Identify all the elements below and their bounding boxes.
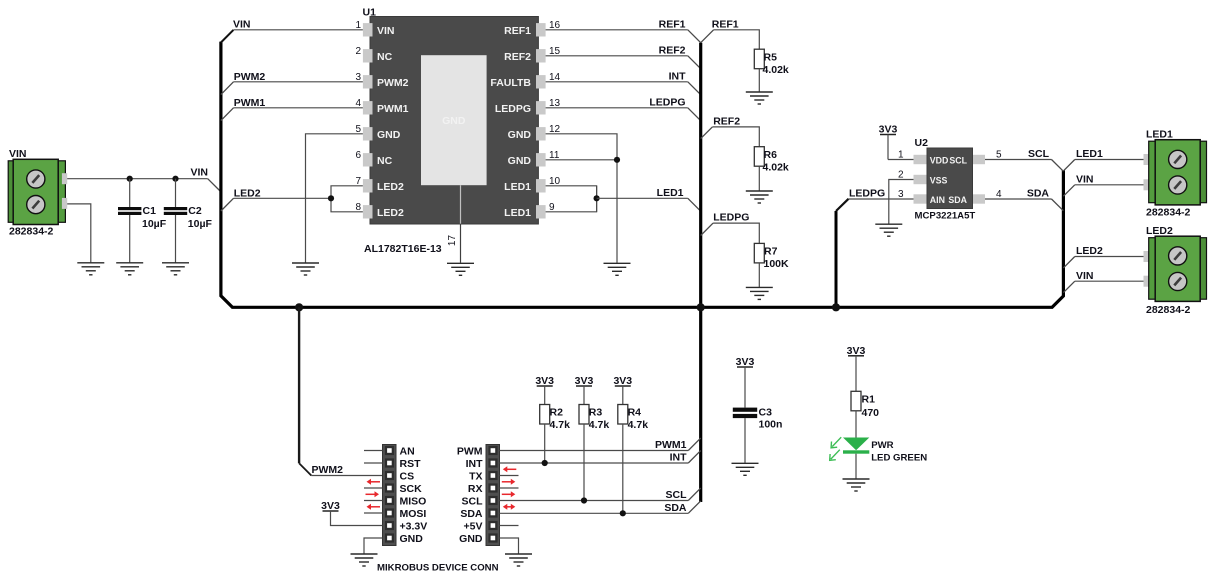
wire R2 down	[544, 424, 546, 463]
stub SCK	[364, 487, 383, 489]
svg-text:R7: R7	[764, 246, 778, 258]
svg-text:PWM2: PWM2	[312, 464, 344, 476]
node R4 junction	[620, 510, 626, 516]
svg-text:LED1: LED1	[657, 187, 684, 199]
svg-text:REF2: REF2	[713, 115, 740, 127]
svg-text:1: 1	[898, 150, 904, 161]
node LED2 bracket junction	[328, 195, 334, 201]
svg-text:REF2: REF2	[659, 44, 686, 56]
power 3V3 for R1	[847, 345, 866, 392]
wire LEDPG to U2 pin3 AIN	[849, 198, 914, 200]
wire U1 pin11 GND	[546, 159, 617, 161]
svg-text:FAULTB: FAULTB	[490, 77, 531, 89]
stub MOSI	[364, 512, 383, 514]
svg-text:LED2: LED2	[234, 187, 261, 199]
svg-text:4.7k: 4.7k	[589, 419, 610, 431]
stub RX	[500, 487, 519, 489]
svg-text:4.02k: 4.02k	[763, 162, 789, 174]
wire PWM2 drop from bus	[298, 307, 300, 463]
wire LED2 from bus to LED2 terminal	[1063, 257, 1074, 268]
svg-text:AN: AN	[400, 446, 415, 458]
svg-text:10µF: 10µF	[188, 218, 213, 230]
resistor R6 4.02k	[754, 147, 789, 174]
svg-text:PWR: PWR	[871, 440, 893, 451]
svg-text:VDD: VDD	[930, 156, 949, 166]
stub MISO	[364, 500, 383, 502]
wire LED1 to right bus	[597, 197, 688, 199]
connector LED1 terminal block 282834-2	[1144, 129, 1207, 219]
svg-text:LED GREEN: LED GREEN	[871, 452, 927, 463]
svg-text:PWM1: PWM1	[377, 103, 409, 115]
LED emission arrows	[830, 437, 842, 460]
arrow SCK-MISO right	[366, 491, 380, 497]
svg-text:10: 10	[549, 176, 561, 187]
wire C3 to ground	[744, 418, 746, 463]
U1 pin stubs right	[536, 23, 546, 218]
svg-text:3V3: 3V3	[613, 375, 632, 387]
svg-text:VSS: VSS	[930, 176, 948, 186]
resistor R4 4.7k	[618, 405, 648, 432]
svg-text:3V3: 3V3	[847, 345, 866, 357]
wire REF1 U1 pin16 to right bus	[546, 29, 688, 31]
node LEDPG bus junction	[832, 303, 840, 311]
ground C2	[162, 263, 189, 275]
svg-text:CS: CS	[400, 471, 415, 483]
svg-text:GND: GND	[442, 115, 466, 127]
ground U2 VSS	[875, 224, 902, 236]
svg-text:INT: INT	[670, 452, 688, 464]
svg-text:R5: R5	[764, 52, 778, 64]
capacitor C1 10uF	[118, 179, 167, 263]
svg-text:INT: INT	[466, 458, 484, 470]
wire R7 to ground	[758, 263, 760, 287]
svg-text:C1: C1	[143, 205, 157, 217]
svg-text:4.7k: 4.7k	[628, 419, 649, 431]
arrow SCL-SDA both	[503, 504, 516, 510]
wire LEDPG from bus to R7	[701, 223, 713, 235]
svg-text:LED1: LED1	[1076, 148, 1103, 160]
resistor R5 4.02k	[754, 49, 789, 76]
wire PWM2 diagonal from bus	[221, 82, 234, 95]
svg-text:SCK: SCK	[400, 483, 423, 495]
svg-text:15: 15	[549, 46, 561, 57]
wire bracket U1 pins 10-9	[546, 186, 597, 212]
svg-text:3: 3	[355, 72, 361, 83]
stub +5V	[500, 525, 519, 527]
svg-text:100n: 100n	[759, 419, 783, 431]
U1 pin numbers	[355, 20, 560, 213]
svg-text:SCL: SCL	[666, 489, 688, 501]
wire SDA mikrobus to bus	[500, 512, 689, 514]
svg-text:MCP3221A5T: MCP3221A5T	[915, 211, 976, 222]
power 3V3 for R2	[535, 375, 554, 405]
svg-text:282834-2: 282834-2	[1146, 206, 1191, 218]
svg-text:17: 17	[447, 235, 458, 247]
U2 pin numbers	[898, 150, 1002, 201]
power 3V3 for C3	[736, 356, 755, 408]
ground C1	[116, 263, 143, 275]
resistor R1 470	[851, 391, 879, 419]
svg-text:VIN: VIN	[1076, 173, 1094, 185]
svg-text:3V3: 3V3	[736, 356, 755, 368]
svg-text:4.02k: 4.02k	[763, 64, 789, 76]
ground mikrobus left	[351, 554, 378, 566]
wire R6 to ground	[758, 166, 760, 190]
arrow TX-RX right	[502, 479, 516, 485]
power 3V3 for R3	[575, 375, 594, 405]
U1 pin labels inside	[377, 25, 531, 219]
svg-text:2: 2	[898, 170, 904, 181]
wire PWM1 to U1 pin4	[234, 107, 363, 109]
wire LEDPG U1 pin13 to right bus	[546, 107, 688, 109]
resistor R2 4.7k	[540, 405, 570, 432]
svg-text:GND: GND	[400, 533, 424, 545]
arrow RX-SCL right	[502, 491, 516, 497]
svg-text:LED1: LED1	[1146, 129, 1173, 141]
ground U1 pin5	[292, 263, 319, 275]
stub RST	[364, 462, 383, 464]
svg-text:U2: U2	[915, 137, 929, 149]
svg-text:GND: GND	[508, 129, 532, 141]
svg-text:MOSI: MOSI	[400, 508, 427, 520]
svg-text:SDA: SDA	[1027, 188, 1050, 200]
wire INT U1 pin14 to right bus	[546, 81, 688, 83]
svg-text:4: 4	[355, 98, 361, 109]
node right bus bottom junction	[697, 303, 705, 311]
wire SCL U2 pin5 to far-right bus	[985, 159, 1052, 161]
svg-text:RX: RX	[468, 483, 483, 495]
wire LED to ground	[855, 454, 857, 479]
svg-text:+5V: +5V	[464, 521, 483, 533]
svg-text:LED2: LED2	[1146, 225, 1173, 237]
arrow CS-SCK left	[367, 479, 381, 485]
svg-text:R2: R2	[550, 407, 564, 419]
svg-text:10µF: 10µF	[142, 218, 167, 230]
svg-text:REF1: REF1	[504, 25, 531, 37]
node PWM2 bus junction	[295, 303, 303, 311]
stub TX	[500, 475, 519, 477]
ground R5	[746, 92, 773, 104]
svg-text:5: 5	[996, 150, 1002, 161]
svg-text:4: 4	[996, 189, 1002, 200]
wire U1 pin12 GND	[546, 134, 617, 263]
wire VIN terminal pin1 to C1/C2/bus	[67, 178, 208, 180]
node R3 junction	[581, 497, 587, 503]
wire LED2 from bus to pins 7/8 bracket	[234, 197, 332, 199]
wire VIN to LED1 terminal	[1063, 185, 1074, 196]
svg-text:TX: TX	[469, 471, 482, 483]
svg-text:9: 9	[549, 202, 555, 213]
svg-text:100K: 100K	[764, 258, 790, 270]
wire SDA U2 pin4 to far-right bus	[985, 198, 1052, 200]
ground U1 pins 11/12	[604, 263, 631, 275]
mikrobus left pin labels	[400, 446, 428, 546]
svg-text:LED2: LED2	[1076, 245, 1103, 257]
svg-text:C2: C2	[188, 205, 202, 217]
wire U1 pin5 GND down to ground	[306, 134, 363, 263]
svg-text:NC: NC	[377, 155, 393, 167]
wire PWM2 to U1 pin3	[234, 81, 363, 83]
svg-text:LEDPG: LEDPG	[849, 188, 885, 200]
svg-text:14: 14	[549, 72, 561, 83]
svg-text:MIKROBUS DEVICE CONN: MIKROBUS DEVICE CONN	[377, 562, 499, 573]
svg-text:16: 16	[549, 20, 561, 31]
stub AN	[364, 450, 383, 452]
bus LEDPG drop from bottom bus	[835, 211, 838, 307]
svg-text:6: 6	[355, 150, 361, 161]
svg-text:REF2: REF2	[504, 51, 531, 63]
power 3V3 for R4	[613, 375, 632, 405]
bus left vertical / bottom horizontal / far-right vertical	[221, 42, 1064, 308]
svg-text:PWM2: PWM2	[234, 71, 266, 83]
node VIN-C2 junction	[172, 176, 178, 182]
op-amp U1 AL1782T16E-13 body	[363, 7, 539, 225]
svg-text:11: 11	[549, 150, 560, 161]
svg-text:282834-2: 282834-2	[9, 226, 54, 238]
svg-text:MISO: MISO	[400, 496, 427, 508]
svg-text:LED1: LED1	[504, 207, 531, 219]
connector mikrobus left header	[383, 445, 397, 546]
U1 pin stubs left	[363, 23, 373, 218]
wire SCL mikrobus to bus	[500, 500, 689, 502]
op-amp U2 MCP3221A5T body	[914, 137, 986, 222]
svg-text:PWM2: PWM2	[377, 77, 409, 89]
wire mikrobus left GND	[364, 538, 383, 554]
wire INT mikrobus to bus	[500, 462, 689, 464]
wire R4 down	[622, 424, 624, 513]
svg-text:282834-2: 282834-2	[1146, 304, 1191, 316]
svg-text:VIN: VIN	[377, 25, 395, 37]
svg-text:AL1782T16E-13: AL1782T16E-13	[364, 243, 442, 255]
svg-text:NC: NC	[377, 51, 393, 63]
svg-text:2: 2	[355, 46, 361, 57]
svg-text:12: 12	[549, 124, 561, 135]
node GND junction pins 11/12	[614, 157, 620, 163]
svg-text:13: 13	[549, 98, 561, 109]
svg-text:SDA: SDA	[948, 195, 967, 205]
svg-text:INT: INT	[669, 70, 687, 82]
wire REF2 from bus to R6	[701, 127, 713, 139]
wire R5 to ground	[758, 69, 760, 92]
power 3V3 mikrobus left	[321, 500, 382, 526]
resistor R7 100K	[754, 243, 789, 270]
power 3V3 for U2	[879, 124, 898, 160]
svg-text:VIN: VIN	[1076, 270, 1094, 282]
svg-text:VIN: VIN	[9, 148, 27, 160]
resistor R3 4.7k	[579, 405, 609, 432]
svg-text:REF1: REF1	[659, 18, 686, 30]
svg-text:AIN: AIN	[930, 195, 945, 205]
svg-text:LEDPG: LEDPG	[495, 103, 531, 115]
connector mikrobus right header	[486, 445, 500, 546]
svg-text:3V3: 3V3	[321, 500, 340, 512]
wire 3V3 to U2 pin1	[888, 159, 914, 161]
wire REF2 U1 pin15 to right bus	[546, 55, 688, 57]
wire U2 pin2 VSS to ground	[889, 180, 914, 224]
svg-text:SDA: SDA	[460, 508, 483, 520]
svg-text:3V3: 3V3	[879, 124, 898, 136]
svg-text:470: 470	[862, 407, 880, 419]
wire R1 to LED	[855, 411, 857, 438]
ground R1 LED	[843, 479, 870, 491]
mikrobus right pin labels	[457, 446, 483, 546]
ground mikrobus right	[505, 554, 532, 566]
wire VIN terminal pin2 to ground	[67, 204, 91, 263]
svg-text:3V3: 3V3	[535, 375, 554, 387]
svg-text:7: 7	[355, 176, 361, 187]
svg-text:RST: RST	[400, 458, 422, 470]
wire LED2 diagonal from bus	[221, 198, 234, 211]
svg-text:VIN: VIN	[233, 18, 251, 30]
svg-text:SDA: SDA	[664, 502, 687, 514]
svg-text:+3.3V: +3.3V	[400, 521, 428, 533]
svg-text:SCL: SCL	[949, 156, 967, 166]
svg-text:R3: R3	[589, 407, 603, 419]
svg-text:PWM1: PWM1	[655, 439, 687, 451]
svg-text:GND: GND	[508, 155, 532, 167]
wire VIN to U1 pin1	[233, 29, 363, 31]
svg-text:VIN: VIN	[190, 167, 208, 179]
svg-text:3V3: 3V3	[575, 375, 594, 387]
capacitor C2 10uF	[164, 179, 213, 263]
svg-text:1: 1	[355, 20, 361, 31]
capacitor C3 100n	[733, 407, 783, 431]
svg-text:GND: GND	[459, 533, 483, 545]
svg-text:SCL: SCL	[462, 496, 484, 508]
svg-text:4.7k: 4.7k	[550, 419, 571, 431]
svg-text:LED1: LED1	[504, 181, 531, 193]
svg-text:3: 3	[898, 189, 904, 200]
ground U1 pin17	[447, 263, 474, 275]
svg-text:GND: GND	[377, 129, 401, 141]
svg-text:PWM: PWM	[457, 446, 483, 458]
svg-text:LEDPG: LEDPG	[649, 96, 685, 108]
svg-text:LED2: LED2	[377, 181, 404, 193]
ground terminal VIN	[77, 263, 104, 275]
ground R7	[746, 287, 773, 299]
node LED1 bracket junction	[594, 195, 600, 201]
svg-text:R1: R1	[862, 394, 876, 406]
diode PWR LED GREEN	[843, 438, 869, 454]
node VIN-C1 junction	[127, 176, 133, 182]
bus right vertical	[699, 43, 702, 502]
svg-text:LEDPG: LEDPG	[713, 212, 749, 224]
wire LED1 from bus to LED1 terminal	[1063, 160, 1074, 171]
svg-text:R6: R6	[764, 149, 778, 161]
ground C3	[732, 463, 759, 475]
wire bracket U1 pins 7-8	[331, 186, 363, 212]
wire VIN to LED2 terminal	[1063, 281, 1074, 292]
arrow MISO-MOSI left	[367, 504, 381, 510]
wire mikrobus right GND	[500, 538, 519, 554]
ground R6	[746, 191, 773, 203]
wire VIN diagonal into left bus	[208, 179, 221, 192]
svg-text:PWM1: PWM1	[234, 97, 266, 109]
node R2 junction	[542, 460, 548, 466]
wire PWM1 diagonal from bus	[221, 108, 234, 121]
svg-text:REF1: REF1	[712, 18, 739, 30]
connector LED2 terminal block 282834-2	[1144, 225, 1207, 316]
svg-text:SCL: SCL	[1028, 148, 1050, 160]
wire PWM1 mikrobus to bus	[500, 450, 689, 452]
wire REF1 from bus to R5	[701, 30, 714, 43]
wire PWM2 to mikrobus CS	[311, 475, 382, 477]
arrow INT-TX left	[503, 466, 517, 472]
U1 pin 17 exposed pad wire	[460, 185, 462, 224]
svg-text:8: 8	[355, 202, 361, 213]
svg-text:LED2: LED2	[377, 207, 404, 219]
svg-text:C3: C3	[759, 407, 773, 419]
svg-text:R4: R4	[628, 407, 642, 419]
wire R3 down	[583, 424, 585, 501]
svg-text:5: 5	[355, 124, 361, 135]
connector VIN terminal block 282834-2	[8, 148, 67, 238]
